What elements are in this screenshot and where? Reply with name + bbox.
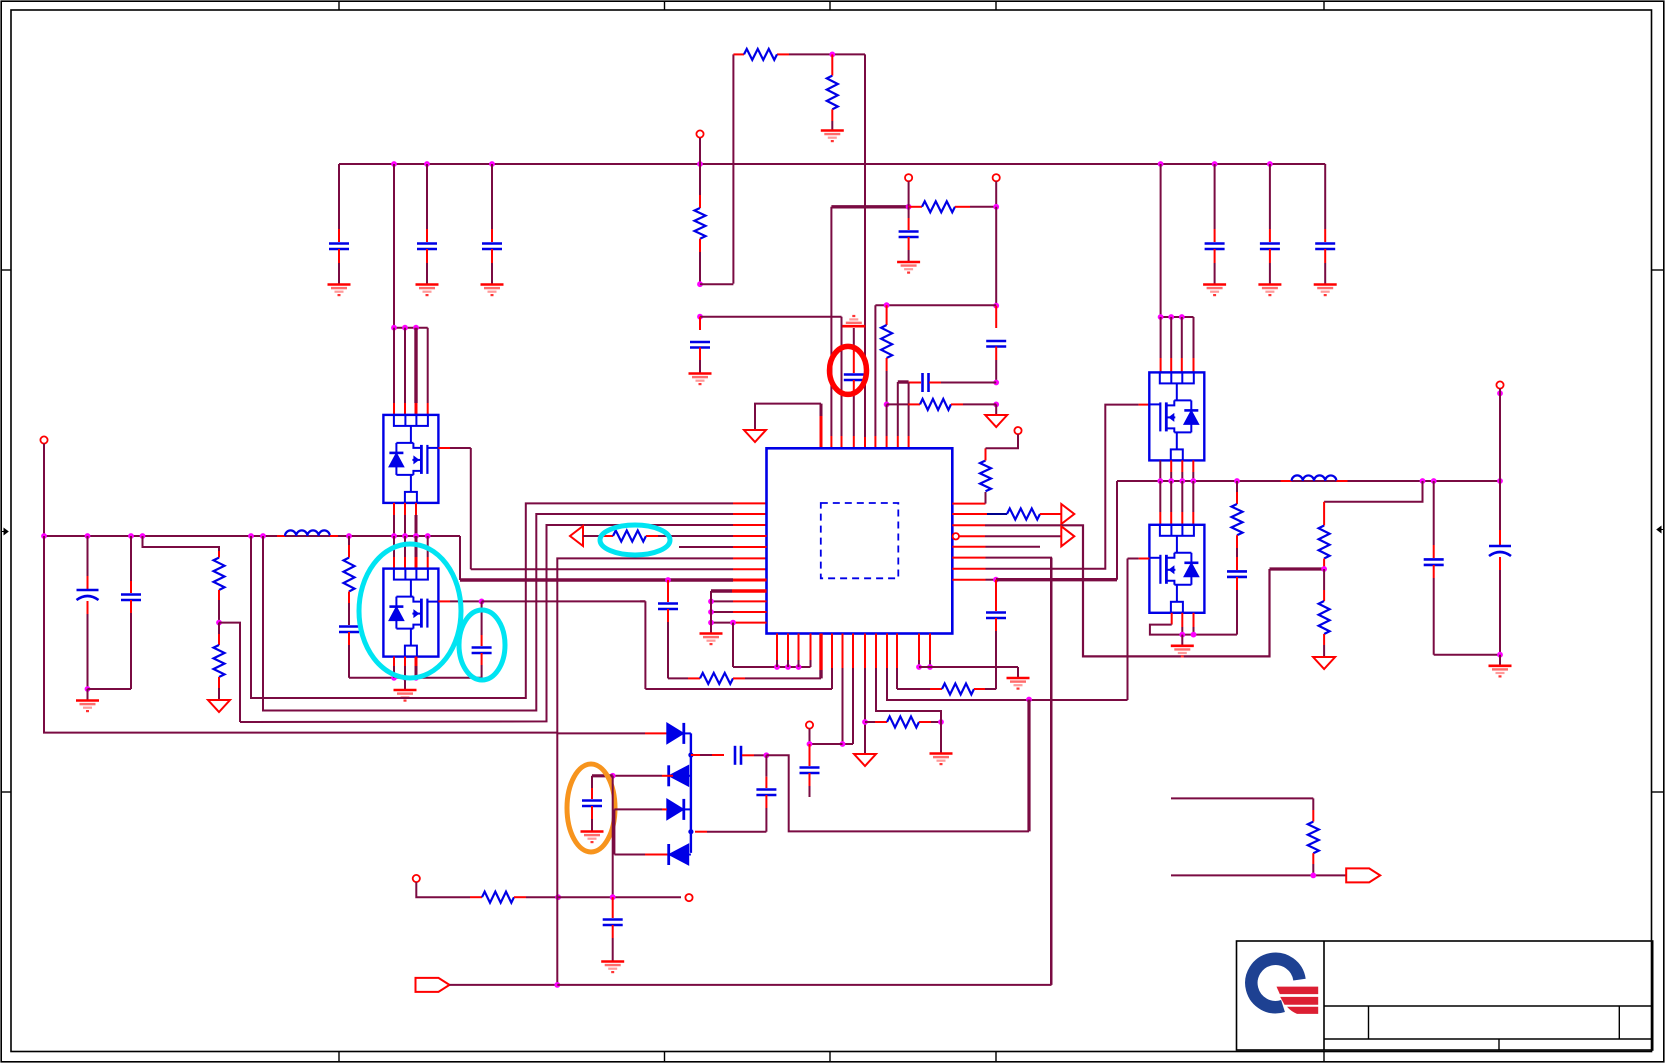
wire D2 left side (613, 775, 673, 777)
wire y=667 under U5 (733, 666, 811, 668)
junction x=1500 y=654.7 (1497, 652, 1503, 658)
Q2 junction row y=317 (1158, 314, 1194, 320)
U5 bottom pin x=897 resistor R14 (897, 634, 996, 695)
junction x=996.2 y=207 (993, 204, 999, 210)
wire (766,755)-(788,755)-(788,831) (766, 755, 1029, 831)
resistor R18 x=1324 lower (1319, 569, 1330, 657)
wire wrap3 y=721.4 to U5 pin y=525 (240, 525, 767, 722)
wire (1422.5,481)-(1324,502.6) (1324, 481, 1422, 502)
wire gate row to x=560 (482, 600, 646, 602)
junction x=919 y=667 (916, 664, 922, 670)
power symbol down x=755 and wire to U5 (744, 404, 821, 448)
junction blue x=690.9 y=755 (688, 752, 693, 757)
wire (219,623)-(240,623)-(240,722) (219, 623, 240, 722)
series capacitor C18 y=755 (691, 746, 767, 765)
junctions y=481 (1157, 478, 1503, 484)
U5 pin y=601.4 (711, 600, 767, 602)
rail2 junctions (85, 533, 431, 539)
capacitor C22 x=766.4 (756, 755, 776, 831)
resistor R3 x=832 vertical (827, 54, 838, 130)
junction x=886.6 y=404 (884, 402, 890, 408)
junction x=557.5 y=984.9 (554, 982, 560, 988)
junction row y=327.7 (391, 325, 428, 331)
U5 left pin y=547 stub (679, 546, 767, 548)
cyan highlight ellipse around R11 (600, 525, 670, 555)
ground under Q4 (1171, 635, 1194, 657)
U5 bottom pins left (777, 634, 811, 668)
junction on top rail x=394 (391, 161, 397, 167)
junction x=1029 y=700 (1026, 697, 1032, 703)
capacitor C19 with ground, x=1215 (1203, 164, 1226, 295)
junction x=996.2 y=382 (993, 380, 999, 386)
capacitor C16 x=1433.7 (1424, 481, 1444, 655)
U5 bottom pin x=832 (831, 634, 833, 690)
wire (766,831.7) to blue bus (695, 831, 766, 833)
junctions x=711 (708, 591, 714, 633)
junction x=996.2 y=404 (993, 402, 999, 408)
capacitor C2 with ground, x=427 (416, 164, 439, 295)
power symbol down x=1324 (1313, 657, 1335, 669)
capacitor C5 x=908.6 (899, 207, 919, 262)
junction x=219 y=622.6 (216, 620, 222, 626)
junction x=481.6 y=601.4 (479, 599, 485, 605)
ground x=941 (930, 722, 953, 764)
wire VIN top rail y=164 (339, 163, 1325, 165)
thick stub to orange cap (592, 776, 613, 799)
capacitor C14 x=809.5 (800, 744, 820, 797)
junction x=87.5 y=689 (85, 686, 91, 692)
ground under C9/C10 (76, 689, 99, 711)
U5 bottom pin x=876 (876, 634, 941, 723)
U5 right pin y=557.6 (952, 558, 1051, 985)
U5 pin y=612 (711, 611, 767, 613)
junctions y=677.8 (391, 675, 419, 681)
polarized capacitor C17 x=1500 (1489, 481, 1511, 655)
capacitor C21 with ground, x=1325 (1314, 164, 1337, 295)
terminal P1 x=700 (696, 130, 703, 164)
junction x=908.6 y=207 (906, 204, 912, 210)
series capacitor C7 y=382 (898, 373, 996, 392)
junction y=667 x=798.5 (796, 664, 802, 670)
capacitor C10 x=131 (88, 536, 142, 689)
ground under Q3 (394, 678, 417, 701)
U5 bottom pin x=887 wire y=700 (887, 634, 1128, 701)
junction x=668 y=580 (665, 577, 671, 583)
junction x=558.1 y=897.2 (555, 894, 561, 900)
capacitor C11 x=349 (339, 627, 359, 678)
resistor R8 x=219 upper (143, 536, 225, 623)
junction x=612.7 y=775.8 (610, 773, 616, 779)
diode D4 left (669, 844, 691, 865)
capacitor C23 x=592 (orange circled) (581, 801, 604, 843)
U5 bottom pin x=842.5 (842, 634, 844, 745)
wire x=733 to y=667 (732, 623, 734, 667)
capacitor C13 x=668 (658, 580, 678, 678)
orange highlight ellipse around C23 (567, 764, 615, 852)
junction x=700 y=284 (697, 281, 703, 287)
terminal P3 x=996.2 (993, 174, 1000, 207)
wire y=481 row (1160, 480, 1500, 482)
wire y=689 x=645-832 (640, 601, 832, 689)
U5 bottom pin x=853 (843, 634, 854, 745)
wire wrap1 y=698 to U5 pin y=503 (251, 503, 767, 698)
ground x=711 (700, 634, 723, 645)
thick bus wire y=580 (460, 536, 767, 580)
junction x=44 y=536 (41, 533, 47, 539)
ground under C4 (689, 374, 712, 385)
polarized capacitor C9 x=87.5 (77, 536, 99, 689)
flag connector right (1346, 868, 1380, 882)
wires down to Q1 (394, 328, 428, 415)
thick wire y=207 to U5 (831, 207, 908, 448)
IC U5 body (767, 448, 953, 633)
junction x=1324.1 y=569 (1321, 566, 1327, 572)
wire top resistor loop (733, 54, 865, 447)
transistor Q3 package (383, 569, 438, 657)
wire y=677.8 under Q3 (349, 677, 482, 679)
junction x=612.7 y=897.2 (610, 894, 616, 900)
capacitor C24 x=612.7 (601, 897, 624, 972)
junction x=996 y=579.7 (993, 577, 999, 583)
diode bus vertical (690, 733, 692, 853)
capacitor C3 with ground, x=492 (481, 164, 504, 295)
flag connector bottom (416, 978, 558, 992)
Q3 top pins from rail2 (394, 536, 428, 569)
junction x=930 y=667 (927, 664, 933, 670)
U5 bottom pin x=821 thick (819, 634, 822, 679)
Q2 top pin wires (1161, 317, 1194, 372)
resistor R6 x=886.6 (881, 305, 892, 404)
wire x=908.6 to U5 pin (908, 383, 910, 448)
junction x=832 y=54 (829, 52, 835, 58)
junction on top rail x=492 (489, 161, 495, 167)
U5 pin y=622.6 (711, 622, 767, 624)
wire y=830 thick vertical x=1029 (1027, 700, 1030, 832)
power symbol down x=219 (208, 700, 230, 712)
U5 right pin y=514 resistor R16 arrow (952, 504, 1074, 524)
U5 bottom pins x=919,930 (919, 634, 930, 668)
junction blue x=690.9 y=831.7 (688, 829, 693, 834)
U5 right pin y=525 long route (952, 525, 1324, 656)
wire wrap4 y=732.6 to U5 pin y=558 (44, 536, 767, 733)
ground under C5 (897, 262, 920, 273)
wire y=654.7 (1434, 654, 1500, 656)
terminal P6 x=809.5 y=725 (806, 721, 843, 744)
wire wrap2 y=710.5 to U5 pin y=514 (263, 514, 767, 711)
junction x=766.4 y=755.3 (764, 752, 770, 758)
wire left rail y=536 (44, 535, 460, 537)
wire (700,317)-(841.5,317) to U5 pin (700, 317, 842, 448)
terminal P5 x=44 (40, 436, 47, 536)
resistor R13 y=722 (865, 717, 941, 728)
junction x=700 y=317 (697, 314, 703, 320)
wire y=897 to terminal P9 (558, 894, 693, 901)
diode D3 right (667, 799, 684, 820)
wire x=996 down to y=306 (995, 207, 997, 306)
wire (700,284)-(733,284) (700, 283, 733, 285)
cyan highlight ellipse around Q3 (359, 544, 461, 678)
Q1 bottom pins to rail2 (394, 503, 416, 536)
ground x=1500 (1489, 655, 1512, 677)
power symbol down x=865 (854, 754, 876, 766)
title block (1237, 941, 1653, 1050)
U5 left pin y=536 triangle+resistor (570, 526, 767, 546)
wire x=886 to U5 top pin (886, 404, 888, 447)
thick bus y=579.7 right (996, 481, 1160, 580)
wire y=733.4 to D1 (557, 732, 667, 734)
power symbol down x=996 (985, 404, 1007, 427)
Q1 gate wire to U5 pin y=569 (438, 448, 766, 569)
capacitor C15 x=996 (986, 580, 1006, 689)
resistor R17 x=1324 upper (1319, 502, 1330, 569)
ground under R3 (821, 131, 844, 142)
ground-cap chain x=853.8 (842, 316, 865, 448)
Q4 gate wire (1128, 559, 1150, 701)
capacitor C6 x=996 (986, 306, 1006, 383)
junction x=996.2 y=306 (993, 303, 999, 309)
terminal P2 x=908.6 (905, 174, 912, 207)
diode D3 D4 bus links (684, 733, 691, 809)
transistor Q4 package (1149, 525, 1204, 613)
junction on top rail x=427 (424, 161, 430, 167)
company logo (1251, 959, 1318, 1014)
capacitor C20 with ground, x=1270 (1258, 164, 1281, 295)
resistor R2 top y=54 (744, 49, 777, 60)
U5 right pin y=547 stub (952, 546, 1040, 548)
capacitor C4 x=700 (690, 317, 710, 373)
junction x=733 y=622.6 (730, 620, 736, 626)
chain x=1237 res+cap (1227, 481, 1247, 635)
capacitor C1 with ground, x=339 (328, 164, 351, 295)
junction x=842.5 y=744 (840, 741, 846, 747)
IC U5 inner dashed square (821, 503, 899, 578)
junction x=886.6 y=305 (884, 302, 890, 308)
U5 right pin y=536 bubble arrow (953, 526, 1075, 546)
resistor R20 x=1313 (1308, 798, 1319, 875)
junction x=1193.5 y=634.6 (1191, 632, 1197, 638)
U5 bottom pin x=865 to power-down (864, 634, 866, 755)
wire y=678.4 resistor R12 (668, 673, 821, 684)
junction x=865 y=722 (862, 719, 868, 725)
junction on top rail x=1160.6 (1158, 161, 1164, 167)
wire y=667 to gnd x=1018 (919, 667, 1030, 689)
terminal P8 x=416 y=878 (413, 875, 470, 897)
wire x=612.7 down to y=897 (612, 776, 614, 898)
inductor L1 y=536 (277, 530, 338, 536)
U5 pin y=591 thick (711, 589, 767, 592)
diode D2 left (669, 765, 691, 786)
junction x=1313.3 y=875.4 (1310, 873, 1316, 879)
junction y=667 x=777 (774, 664, 780, 670)
wire stub y=875.4 (1171, 874, 1346, 876)
junction on top rail x=700 (697, 161, 703, 167)
junction x=1182.3 y=634.6 (1179, 632, 1185, 638)
Q2 bottom pins to y=481 (1160, 460, 1193, 481)
capacitor C12 x=481.6 (472, 601, 492, 677)
cyan highlight ellipse around C12 (459, 610, 505, 680)
Q3 gate wire (438, 600, 481, 602)
Q4 top pins (1160, 481, 1193, 525)
wire x=394 rail to junction row (393, 164, 395, 328)
U5 right pin y=568.8 to Q2 gate (952, 405, 1149, 569)
resistor R7 y=404 (887, 399, 997, 410)
U5 right pin y=579.7 (952, 579, 996, 581)
vertical x=557.5 (556, 733, 558, 985)
wire stub y=798.4 (1171, 797, 1313, 799)
junction on top rail x=1269.9 (1267, 161, 1273, 167)
junction y=667 x=788 (785, 664, 791, 670)
wire x=897.8 to U5 pin (897, 382, 899, 448)
wire D3 left (614, 809, 673, 854)
resistor R9 x=219 lower (214, 623, 225, 700)
U5 right pin y=503.6 resistor R15 to P4 (952, 434, 1018, 503)
terminal P7 x=1500 (1496, 381, 1503, 481)
diode D1 right (667, 723, 684, 744)
inductor L2 y=481 (1281, 475, 1348, 481)
wire y=984.9 long (557, 558, 1051, 985)
junction x=809.5 y=744 (807, 741, 813, 747)
transistor Q1 package (383, 415, 438, 503)
wire x=1160.6 rail to junction row (1160, 164, 1162, 317)
junction x=941 y=722 (938, 719, 944, 725)
terminal P4 x=1018 y=430 (1014, 427, 1021, 434)
resistor R4 x=700 chain (695, 164, 706, 284)
resistor R10 x=349 (344, 536, 355, 625)
resistor R5 y=207 (909, 201, 997, 212)
junction on top rail x=1214.6 (1212, 161, 1218, 167)
red highlight ellipse around C8 (830, 346, 867, 394)
wire y=306 x875-x996 (875, 305, 996, 447)
Q4 bottom pins (1150, 613, 1237, 635)
transistor Q2 package (1149, 372, 1204, 460)
Q3 bottom pins (394, 657, 416, 678)
resistor R19 y=897 (470, 892, 558, 903)
